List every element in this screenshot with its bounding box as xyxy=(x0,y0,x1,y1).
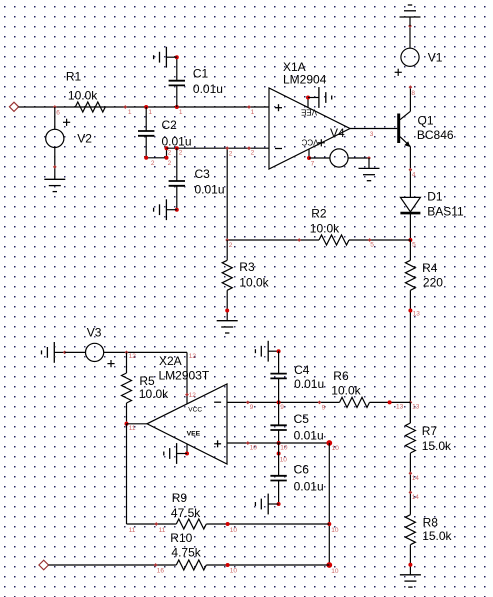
V4 right wire xyxy=(348,156,371,160)
svg-text:LM2903T: LM2903T xyxy=(159,369,210,383)
svg-text:4.75k: 4.75k xyxy=(171,545,201,559)
X1A output wire net3 xyxy=(350,129,397,138)
svg-text:13: 13 xyxy=(412,404,420,411)
X1A VEE text (flipped) xyxy=(301,107,317,116)
ground left of C3 (rotated) xyxy=(154,199,177,220)
svg-text:V2: V2 xyxy=(77,132,92,146)
svg-text:11: 11 xyxy=(129,425,136,432)
capacitor C5 wires xyxy=(278,402,280,443)
svg-text:R8: R8 xyxy=(423,515,439,529)
diode D1 cathode bar xyxy=(400,212,420,215)
svg-text:C3: C3 xyxy=(195,167,211,181)
resistor R1 xyxy=(75,102,105,112)
R2 row left wire xyxy=(225,238,319,249)
svg-text:10.0k: 10.0k xyxy=(331,384,361,398)
svg-text:0.01u: 0.01u xyxy=(195,182,225,196)
resistor R8 xyxy=(405,515,415,545)
svg-text:47.5k: 47.5k xyxy=(171,506,201,520)
Q1 emitter diagonal xyxy=(400,137,410,147)
wire net6/1 main horizontal xyxy=(19,106,270,108)
junction jog net2 xyxy=(165,156,172,167)
X1A VEE junction xyxy=(306,96,310,100)
junction C4-top xyxy=(277,349,281,353)
R9 labels xyxy=(171,491,201,520)
svg-text:1: 1 xyxy=(251,109,255,116)
V3 left pin tick xyxy=(63,351,67,355)
svg-text:VEE: VEE xyxy=(301,107,317,116)
capacitor C1 xyxy=(169,81,185,86)
capacitor C3 wires xyxy=(176,148,178,210)
R8 bottom wire xyxy=(408,545,412,575)
svg-text:V4: V4 xyxy=(330,126,345,140)
Q1 emitter arrow xyxy=(404,141,410,147)
C1 labels xyxy=(193,66,223,95)
C5 bottom pin node net10 xyxy=(277,452,288,464)
ground left of C4 (rotated) xyxy=(255,341,278,362)
svg-text:V3: V3 xyxy=(87,325,102,339)
X1A labels xyxy=(283,60,327,86)
svg-text:X2A: X2A xyxy=(159,354,182,368)
svg-text:2: 2 xyxy=(168,149,172,156)
X1A VCC junction net7 xyxy=(307,156,315,168)
svg-text:12: 12 xyxy=(189,353,197,360)
X1A VCC pin stub xyxy=(308,149,310,158)
port P2 (bottom diamond, net 16) xyxy=(39,560,49,570)
ground left of X2A VEE (rotated) xyxy=(164,443,187,464)
vsource V2 xyxy=(46,119,71,148)
V1 label xyxy=(428,51,443,65)
C2 labels xyxy=(162,118,192,148)
wire right column net10 down xyxy=(328,443,330,565)
vsource V3 left wire xyxy=(65,351,86,353)
wire Q1 collector up net8 xyxy=(409,85,416,111)
X2A VEE text xyxy=(187,431,201,438)
svg-text:7: 7 xyxy=(311,161,315,168)
svg-text:14: 14 xyxy=(412,475,420,482)
junction C1-top corner xyxy=(175,55,179,59)
svg-text:9: 9 xyxy=(250,404,254,411)
svg-text:10: 10 xyxy=(332,445,340,452)
R8 labels xyxy=(422,515,452,543)
svg-text:2: 2 xyxy=(251,149,255,156)
V3 right wire net12 xyxy=(104,351,187,353)
X2A output wire xyxy=(127,423,148,425)
C4 labels xyxy=(294,363,324,391)
wire X2A plus row net10 xyxy=(227,441,329,452)
R6 labels xyxy=(331,369,361,397)
vsource V2 top stub wire xyxy=(54,107,56,129)
R5 top junction net12 xyxy=(125,351,137,360)
op-amp X2A triangle xyxy=(147,384,227,464)
junction C4/C5 net9 xyxy=(277,400,285,411)
R10 right wire net10 xyxy=(206,563,329,575)
svg-text:2: 2 xyxy=(168,160,172,167)
svg-text:10.0k: 10.0k xyxy=(239,276,269,290)
svg-text:6: 6 xyxy=(56,109,60,116)
svg-text:10: 10 xyxy=(331,568,339,575)
svg-text:R1: R1 xyxy=(66,69,82,83)
resistor R3 xyxy=(222,260,232,290)
junction node C1-bottom net1 xyxy=(175,105,183,116)
Q1 collector diagonal xyxy=(400,111,410,119)
R2 labels xyxy=(310,206,340,235)
vsource V4 xyxy=(318,139,348,167)
svg-text:R6: R6 xyxy=(333,369,349,383)
Q1 labels xyxy=(417,113,454,142)
svg-text:1: 1 xyxy=(148,109,152,116)
D1 labels xyxy=(427,189,464,218)
resistor R2 xyxy=(319,235,349,245)
svg-text:10: 10 xyxy=(230,568,238,575)
junction C3-top net2 xyxy=(175,146,183,156)
svg-text:10: 10 xyxy=(230,527,238,534)
svg-text:16: 16 xyxy=(157,568,165,575)
X1A plus-input pin tick net1 xyxy=(247,105,255,116)
X2A VEE pin stub xyxy=(186,444,188,454)
wire X2A minus row net9 xyxy=(227,401,340,412)
X2A minus input marker xyxy=(214,401,221,403)
X1A VEE pin stub xyxy=(307,98,309,108)
svg-text:13: 13 xyxy=(413,310,421,317)
svg-text:1: 1 xyxy=(128,109,132,116)
ground below R3 xyxy=(217,321,238,333)
R3 bottom wire xyxy=(225,290,229,320)
junction net10 at R9 row xyxy=(327,522,339,534)
svg-text:220: 220 xyxy=(423,276,443,290)
R10 row left wire net16 xyxy=(49,563,177,575)
wire V1 to top ground xyxy=(409,17,411,26)
R4 bottom wire net13 xyxy=(408,290,420,423)
svg-text:R9: R9 xyxy=(172,491,188,505)
svg-text:10: 10 xyxy=(280,445,288,452)
wire net13 to R7 xyxy=(409,402,411,423)
svg-text:0.01u: 0.01u xyxy=(294,479,324,493)
R6 left pin tick net9 xyxy=(318,401,326,412)
wire V2 to ground xyxy=(53,148,57,180)
R5 bottom wire xyxy=(125,403,129,425)
R9 right wire net10 xyxy=(206,522,329,534)
C3 labels xyxy=(195,167,225,196)
wire V4 to ground xyxy=(368,158,370,168)
ground right of X1A VEE (rotated) xyxy=(308,87,332,108)
R6 right wire net13 xyxy=(370,400,411,410)
ground below V4 xyxy=(359,168,380,180)
svg-text:2: 2 xyxy=(229,242,233,249)
svg-text:13: 13 xyxy=(396,404,404,411)
junction C3-bottom corner xyxy=(175,208,179,212)
svg-text:2: 2 xyxy=(229,150,233,157)
X1A VCC text (flipped) xyxy=(301,138,318,147)
X1A minus input marker xyxy=(275,148,282,150)
capacitor C4 xyxy=(270,374,286,379)
capacitor C2 wires xyxy=(145,107,147,158)
svg-text:Q1: Q1 xyxy=(418,113,434,127)
svg-text:11: 11 xyxy=(129,527,136,534)
resistor R10 xyxy=(176,560,206,570)
svg-text:R3: R3 xyxy=(239,260,255,274)
svg-text:5: 5 xyxy=(412,241,416,248)
svg-text:D1: D1 xyxy=(427,189,443,203)
svg-text:9: 9 xyxy=(280,404,284,411)
svg-text:15.0k: 15.0k xyxy=(422,529,452,543)
capacitor C6 wires xyxy=(278,443,280,504)
junction C6-bottom xyxy=(277,502,281,506)
svg-text:0.01u: 0.01u xyxy=(193,82,223,96)
resistor R9 xyxy=(176,519,206,529)
wire Q1 emitter down net4 xyxy=(409,147,416,198)
capacitor C6 xyxy=(270,476,286,481)
capacitor C4 wires xyxy=(278,351,280,402)
svg-text:10: 10 xyxy=(250,445,258,452)
svg-text:LM2904: LM2904 xyxy=(283,73,327,87)
ground below V2 xyxy=(44,179,65,191)
V2 label xyxy=(77,132,92,146)
V4 label xyxy=(330,126,345,140)
svg-text:8: 8 xyxy=(411,90,415,97)
diode D1 triangle xyxy=(400,197,420,211)
vsource V1 xyxy=(395,48,420,76)
capacitor C3 xyxy=(169,181,185,186)
svg-text:VCC: VCC xyxy=(188,406,202,413)
R1 right pin tick net1 xyxy=(123,105,131,116)
transistor Q1 base bar xyxy=(397,114,400,144)
C6 labels xyxy=(294,462,324,493)
svg-text:0.01u: 0.01u xyxy=(294,429,324,443)
resistor R4 xyxy=(405,260,415,290)
svg-text:2: 2 xyxy=(179,149,183,156)
svg-text:VCC: VCC xyxy=(301,138,318,147)
C5 labels xyxy=(294,412,324,443)
svg-text:10.0k: 10.0k xyxy=(139,387,169,401)
X2A plus input marker xyxy=(214,440,221,447)
svg-text:BAS11: BAS11 xyxy=(427,204,464,218)
svg-text:9: 9 xyxy=(322,405,326,412)
R7-R8 wire net14 xyxy=(409,453,420,515)
svg-text:V1: V1 xyxy=(428,51,443,65)
vsource V3 xyxy=(86,343,115,367)
R3 labels xyxy=(239,260,269,290)
svg-text:10.0k: 10.0k xyxy=(310,222,340,236)
junction net5 xyxy=(408,238,416,248)
wire net2 horizontal to X1A minus xyxy=(167,147,270,149)
wire net2 to R3 xyxy=(226,240,228,260)
svg-text:0.01u: 0.01u xyxy=(294,377,324,391)
svg-text:R10: R10 xyxy=(170,531,192,545)
svg-text:R7: R7 xyxy=(422,424,438,438)
R9 left pin tick net11 xyxy=(154,522,165,534)
ground above V1 xyxy=(400,5,421,17)
svg-text:R5: R5 xyxy=(139,374,155,388)
X1A minus-input pin tick net2 xyxy=(247,146,255,156)
svg-text:10: 10 xyxy=(280,456,288,463)
svg-text:C5: C5 xyxy=(294,412,310,426)
R4 labels xyxy=(422,261,443,290)
port P1 (input diamond, net 6) xyxy=(9,102,18,111)
R1 value label xyxy=(66,69,98,102)
junction X2A output net11 xyxy=(125,422,136,432)
junction C2-bottom net2 xyxy=(144,156,155,167)
ground left of V3 (rotated) xyxy=(42,342,65,363)
resistor R6 xyxy=(340,397,370,407)
svg-text:C4: C4 xyxy=(294,363,310,377)
wire net2 vertical down xyxy=(225,146,233,240)
capacitor C2 xyxy=(138,131,154,136)
svg-text:15.0k: 15.0k xyxy=(422,439,452,453)
wire V3 to R5 xyxy=(126,352,128,373)
wire net12 corner down to X2A VCC xyxy=(185,352,196,404)
svg-text:R2: R2 xyxy=(311,206,327,220)
svg-text:14: 14 xyxy=(412,494,420,501)
R2 right wire net5 xyxy=(349,238,410,248)
X2A labels xyxy=(159,354,210,383)
capacitor C5 xyxy=(270,425,286,430)
corner junction net10 at R10 row xyxy=(326,562,339,575)
svg-text:2: 2 xyxy=(151,160,155,167)
capacitor C1 wires xyxy=(176,57,178,107)
svg-text:5: 5 xyxy=(370,241,374,248)
ground below R8 xyxy=(400,575,421,587)
svg-text:C6: C6 xyxy=(294,462,310,476)
corner junction plus row right xyxy=(326,440,339,452)
svg-text:3: 3 xyxy=(370,131,374,138)
svg-text:C1: C1 xyxy=(193,66,209,80)
junction C5-bottom plus row xyxy=(277,441,288,452)
svg-text:BC846: BC846 xyxy=(417,128,454,142)
ground left of C1 (rotated) xyxy=(154,47,177,68)
junction node C2-top net1 xyxy=(144,105,152,116)
svg-text:12: 12 xyxy=(189,392,197,399)
junction net13 at R6 row xyxy=(409,401,420,411)
op-amp X1A triangle xyxy=(269,88,350,169)
wire C2-bottom jog xyxy=(146,148,166,158)
junction net2 left xyxy=(165,146,172,156)
ground left of C6 (rotated) xyxy=(255,494,278,515)
wire net5 to R4 xyxy=(409,240,411,260)
svg-text:11: 11 xyxy=(159,527,166,534)
resistor R5 xyxy=(122,373,132,403)
X2A VCC text xyxy=(188,406,202,413)
svg-text:4: 4 xyxy=(412,172,416,179)
svg-text:10: 10 xyxy=(331,527,339,534)
vsource V4 left wire xyxy=(309,157,330,159)
wire D1 to net5 junction xyxy=(409,213,411,240)
V1 top wire xyxy=(408,24,412,48)
R5 labels xyxy=(139,374,169,401)
wire X2A output down to R9 row xyxy=(126,424,128,524)
svg-text:R4: R4 xyxy=(422,261,438,275)
R7 labels xyxy=(422,424,452,453)
node net6 tick at V2/R1-left xyxy=(53,105,60,116)
svg-text:10.0k: 10.0k xyxy=(68,88,98,102)
svg-text:VEE: VEE xyxy=(187,431,201,438)
V3 label xyxy=(87,325,102,339)
X2A VEE junction xyxy=(185,452,189,456)
X1A plus input marker xyxy=(275,104,282,111)
svg-text:1: 1 xyxy=(179,109,183,116)
R9 row left wire net11 xyxy=(127,524,177,534)
svg-text:C2: C2 xyxy=(162,118,178,132)
resistor R7 xyxy=(405,423,415,453)
svg-text:12: 12 xyxy=(129,353,137,360)
R10 labels xyxy=(170,531,201,560)
R2 left pin tick xyxy=(297,238,301,242)
